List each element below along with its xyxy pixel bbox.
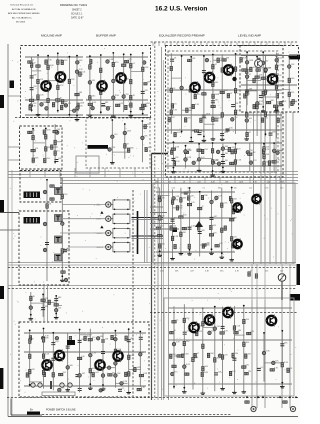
node (256, 56, 258, 58)
capacitor C854 (139, 353, 143, 357)
resistor R27 (116, 104, 120, 107)
capacitor C340 (226, 129, 230, 131)
resistor R638 (221, 203, 224, 207)
switch contact T2 (55, 215, 63, 222)
resistor R327 (189, 90, 193, 93)
resistor R346 (246, 113, 249, 117)
resistor R621 (158, 234, 162, 237)
section box EQUALIZER inner (168, 51, 278, 172)
svg-text:1458: 1458 (249, 60, 253, 62)
transistor Q206 (222, 306, 233, 318)
resistor R617 (215, 245, 219, 248)
svg-text:POWER SWITCH S.B LINE: POWER SWITCH S.B LINE (46, 408, 76, 411)
jack J3 LINE OUT L (106, 228, 130, 239)
resistor R823 (29, 339, 32, 343)
capacitor C82 (41, 336, 45, 340)
resistor R2L32 (124, 144, 127, 148)
resistor R417 (275, 86, 278, 90)
resistor R624 (171, 236, 174, 240)
resistor R824 (29, 354, 32, 358)
wire box-to-bus tick L5 (89, 168, 91, 178)
wire bottom left drop (10, 399, 12, 416)
capacitor C226 (143, 83, 147, 85)
ground (242, 390, 247, 393)
wire (172, 142, 174, 170)
capacitor C83 (55, 336, 59, 340)
resistor R330 (202, 93, 206, 96)
ground (129, 114, 134, 117)
capacitor C601 (64, 278, 68, 282)
resistor R93 (41, 299, 45, 302)
capacitor C16 (40, 103, 44, 107)
capacitor C3L63 (192, 161, 196, 165)
resistor R19 (77, 103, 80, 107)
svg-text:0.01: 0.01 (131, 355, 135, 357)
capacitor C838 (89, 353, 93, 357)
resistor R353 (275, 106, 278, 110)
tick mark top row 24 (290, 43, 292, 47)
resistor R32 (187, 59, 191, 62)
wire (131, 71, 141, 73)
bias triangle (195, 221, 203, 227)
bus wire vertical 1 (151, 154, 153, 401)
ground (75, 118, 80, 121)
capacitor C3b99 (269, 133, 273, 135)
wire (241, 84, 297, 86)
ground (220, 137, 225, 140)
capacitor C818 (58, 388, 62, 392)
tick mark top row 1 (152, 43, 154, 47)
svg-text:470: 470 (115, 62, 118, 64)
node (128, 328, 130, 330)
svg-text:47: 47 (202, 206, 204, 208)
resistor R214 (100, 90, 103, 94)
capacitor C820 (99, 389, 103, 393)
resistor R328 (194, 130, 198, 133)
capacitor C841 (101, 352, 105, 354)
wire border stub 3 (8, 159, 21, 161)
wire (57, 53, 59, 112)
capacitor C501 (43, 190, 47, 194)
wire (42, 294, 44, 317)
ground (110, 161, 115, 164)
svg-text:0.01: 0.01 (279, 58, 283, 60)
svg-text:DATE 12-87: DATE 12-87 (71, 17, 84, 20)
wire switch to jack 3 (60, 232, 105, 234)
boundary dashed bottom 2 (42, 414, 232, 416)
capacitor C92 (29, 306, 33, 310)
capacitor C94 (41, 308, 45, 310)
wire (24, 385, 146, 387)
wire (143, 83, 148, 85)
transistor Q108 (112, 350, 123, 362)
resistor RA5 (220, 332, 224, 335)
svg-text:470: 470 (213, 232, 216, 234)
wire (55, 141, 62, 143)
resistor R817 (139, 374, 143, 377)
capacitor CA28 (191, 328, 195, 330)
node (202, 307, 204, 309)
wire (102, 333, 104, 387)
svg-text:47: 47 (215, 64, 217, 66)
svg-text:ACTUAL SCHEMA FOR: ACTUAL SCHEMA FOR (12, 8, 36, 11)
resistor R68 (170, 226, 173, 230)
capacitor C52 (45, 243, 49, 245)
node (89, 383, 91, 385)
jack J6 (bottom) (290, 406, 295, 411)
svg-text:220: 220 (249, 188, 252, 190)
node (42, 294, 44, 296)
bus wire horizontal 2 (8, 174, 298, 176)
capacitor C834 (78, 340, 82, 342)
resistor R314 (168, 118, 171, 122)
capacitor C3L77 (221, 147, 225, 151)
wire (281, 331, 283, 385)
resistor RA17 (201, 372, 204, 376)
transistor Q104 (53, 349, 64, 361)
resistor RA37 (221, 355, 224, 359)
wire (170, 53, 172, 134)
filter block outline (76, 156, 99, 173)
tick mark top row 6 (182, 43, 184, 47)
resistor R3L72 (197, 149, 201, 152)
wire (202, 308, 204, 391)
node (246, 51, 248, 53)
capacitor C840 (101, 340, 105, 342)
transistor Q303 (light) (255, 60, 263, 68)
resistor R326 (186, 108, 189, 112)
resistor RA10 (194, 353, 197, 357)
resistor R23 (124, 60, 128, 63)
ground (170, 257, 175, 260)
svg-text:220: 220 (60, 60, 63, 62)
resistor RA249 (281, 363, 284, 367)
capacitor C15 (29, 104, 33, 108)
node (281, 330, 283, 332)
wire switch to jack 2 (60, 218, 105, 220)
capacitor C31 (170, 59, 174, 61)
wire (156, 251, 235, 253)
wire (263, 333, 265, 382)
resistor R642 (230, 237, 233, 241)
tick mark top row 23 (284, 43, 286, 47)
resistor R123 (56, 99, 60, 102)
rail bottom-right mid (168, 339, 292, 341)
wire (199, 157, 212, 159)
node (263, 143, 265, 145)
resistor R113 (29, 99, 33, 102)
boundary dashed mid 1 (8, 267, 296, 269)
svg-text:0.1: 0.1 (237, 110, 240, 112)
ground (229, 258, 234, 261)
node (55, 295, 57, 297)
resistor R332 (212, 65, 215, 69)
resistor R349 (264, 68, 267, 72)
wire box-to-bus tick R7 (264, 177, 266, 184)
capacitor CA4 (208, 331, 212, 335)
svg-text:.047: .047 (81, 373, 85, 375)
wire (203, 327, 213, 329)
bus wire horizontal 4 (60, 180, 298, 182)
ground (179, 252, 184, 255)
resistor R42 (250, 67, 253, 71)
capacitor C2L27 (108, 148, 112, 152)
node (76, 55, 78, 57)
capacitor C3L87 (272, 149, 276, 153)
resistor R119 (47, 98, 50, 102)
node (190, 137, 192, 139)
node (69, 56, 71, 58)
wire (32, 129, 34, 164)
resistor R11 (28, 61, 32, 64)
svg-text:0.01: 0.01 (177, 132, 181, 134)
resistor R614 (174, 244, 177, 248)
resistor R316 (200, 118, 203, 122)
wire (123, 54, 125, 112)
resistor R221 (130, 64, 133, 68)
capacitor C836 (78, 374, 82, 378)
node (31, 109, 33, 111)
resistor R3L88 (272, 161, 276, 164)
node (173, 386, 175, 388)
node (181, 131, 183, 133)
wire switch to bottom amp 2 (47, 285, 49, 322)
wire (101, 106, 111, 108)
transistor Q101 (40, 80, 51, 92)
resistor RA16 (185, 373, 189, 376)
capacitor C319 (245, 119, 249, 123)
wire (181, 192, 191, 194)
resistor RA30 (197, 324, 200, 328)
section boundary dashed vertical (jacks) (132, 190, 134, 396)
svg-text:1458: 1458 (127, 131, 131, 133)
resistor R640 (230, 199, 233, 203)
resistor R213 (100, 68, 103, 72)
resistor R618 (231, 244, 234, 248)
wire (174, 355, 184, 357)
resistor R852 (128, 372, 131, 376)
wire (124, 124, 126, 159)
section box record eq (solid) (153, 183, 295, 263)
bus wire mid 1 (8, 262, 296, 264)
ground (187, 252, 192, 255)
wire box-to-bus tick R2 (189, 177, 191, 184)
resistor R1L36 (32, 135, 35, 139)
wire (156, 191, 235, 193)
wire (200, 244, 210, 246)
resistor R3L60 (262, 149, 265, 153)
svg-text:1458: 1458 (206, 114, 210, 116)
wire (115, 382, 127, 384)
resistor R124 (61, 100, 64, 104)
wire (189, 188, 191, 252)
svg-text:220: 220 (265, 270, 268, 272)
resistor R36 (258, 58, 261, 62)
svg-text:SCALE 1:1: SCALE 1:1 (71, 13, 83, 16)
black tab 16.2 section (289, 55, 300, 60)
svg-text:470: 470 (92, 337, 95, 339)
node (189, 249, 191, 251)
ground (157, 253, 162, 256)
capacitor C2L30 (111, 135, 115, 139)
wire (128, 329, 130, 390)
connector pin P2 (38, 383, 42, 387)
wire (275, 53, 277, 109)
resistor R121 (57, 73, 60, 77)
capacitor C325 (180, 86, 184, 90)
node (142, 52, 144, 54)
svg-text:47: 47 (33, 63, 35, 65)
resistor R3L68 (171, 148, 175, 151)
node (69, 114, 71, 116)
resistor R118 (46, 83, 50, 86)
node (181, 55, 183, 57)
node bottom 3 (262, 396, 264, 398)
capacitor C635 (210, 200, 214, 204)
svg-text:MO 2803: MO 2803 (16, 22, 26, 24)
bus wire gap band 1 (251, 264, 253, 300)
resistor R901 (245, 401, 249, 404)
wire (160, 195, 170, 197)
node (37, 54, 39, 56)
node (222, 167, 224, 169)
resistor R322 (170, 66, 173, 70)
tick mark top row 12 (218, 43, 220, 47)
wire (69, 110, 79, 112)
resistor R310 (227, 94, 230, 98)
resistor R822 (137, 388, 141, 391)
ground (210, 173, 215, 176)
wire (solid box corner) (152, 153, 169, 155)
wire (43, 329, 45, 389)
svg-text:1458: 1458 (191, 226, 195, 228)
resistor R835 (77, 357, 81, 360)
resistor R611 (210, 225, 213, 229)
node (30, 314, 32, 316)
wire (100, 55, 102, 114)
svg-text:100: 100 (265, 60, 268, 62)
wire (241, 55, 297, 57)
resistor R320 (261, 118, 264, 122)
wire (235, 144, 237, 173)
resistor R412 (253, 78, 256, 82)
svg-text:470: 470 (35, 148, 38, 150)
scan mark left 4 (0, 368, 3, 389)
resistor R66 (229, 196, 232, 200)
node (61, 275, 63, 277)
resistor R3L62 (173, 161, 176, 165)
resistor R222 (130, 79, 133, 83)
svg-text:2SC: 2SC (81, 339, 85, 341)
node (45, 127, 47, 129)
node (102, 384, 104, 386)
svg-text:47: 47 (249, 74, 251, 76)
bus wire right 7 (285, 112, 287, 264)
resistor R626 (180, 198, 183, 202)
capacitor C844 (107, 366, 111, 370)
resistor R637 (209, 234, 213, 237)
node bottom 5 (289, 396, 291, 398)
resistor R1L39 (45, 147, 48, 151)
transistor Q213 (232, 238, 242, 249)
resistor R815 (108, 374, 112, 377)
capacitor C631 (188, 227, 192, 229)
wire box-to-bus tick L6 (104, 168, 106, 178)
bus dashed vertical 2 (154, 42, 156, 400)
wire jack to bus 2 (132, 219, 164, 221)
capacitor C819 (78, 389, 82, 391)
ground (201, 391, 206, 394)
rail bottom-right bottom (168, 383, 292, 385)
node (29, 330, 31, 332)
resistor R342 (234, 89, 237, 93)
wire (55, 296, 57, 316)
resistor RA8 (170, 354, 173, 358)
wire (31, 57, 33, 112)
svg-text:220: 220 (266, 161, 269, 163)
resistor RA7 (247, 332, 251, 335)
resistor R3L75 (211, 160, 214, 164)
capacitor C2b35 (91, 106, 95, 110)
transistor Q103 (54, 71, 65, 83)
resistor R415 (262, 91, 265, 95)
node (79, 329, 81, 331)
wire (247, 80, 261, 82)
capacitor CA9 (181, 354, 185, 358)
resistor R2L29 (145, 147, 148, 151)
svg-text:0.01: 0.01 (82, 72, 86, 74)
switch contact T3 (55, 236, 63, 243)
jack J5 (bottom) (251, 406, 256, 411)
resistor R55 (61, 249, 64, 253)
wire (142, 126, 148, 128)
wire (233, 306, 235, 390)
resistor R3b89 (171, 104, 174, 108)
wire (273, 143, 275, 173)
tick mark top row 10 (206, 43, 208, 47)
ground (274, 109, 279, 112)
bus wire right 4 (269, 112, 271, 264)
wire (246, 52, 248, 105)
svg-text:680: 680 (43, 102, 46, 104)
svg-text:220: 220 (234, 236, 237, 238)
wire (222, 129, 233, 131)
resistor R1L40 (51, 145, 54, 149)
wire (166, 165, 282, 167)
resistor R627 (179, 216, 183, 219)
svg-text:2SC: 2SC (92, 95, 96, 97)
bus wire mid 3 (8, 285, 296, 287)
tick mark top row 2 (158, 43, 160, 47)
resistor R601 (61, 271, 65, 274)
node (100, 54, 102, 56)
resistor R615 (188, 244, 191, 248)
resistor R837 (88, 338, 92, 341)
tick mark top row 7 (188, 43, 190, 47)
resistor R827 (42, 354, 45, 358)
svg-text:100: 100 (279, 93, 282, 95)
ground (88, 113, 93, 116)
svg-text:1458: 1458 (80, 103, 84, 105)
section box REC/PB switch B (19, 211, 69, 285)
svg-text:120: 120 (201, 131, 204, 133)
wire (25, 56, 83, 58)
svg-text:680: 680 (100, 336, 103, 338)
section box EQUALIZER RECORD PREAMP (166, 46, 284, 178)
wire (37, 55, 39, 113)
resistor R2b38 (140, 107, 144, 110)
transistor Q211 (251, 193, 261, 204)
